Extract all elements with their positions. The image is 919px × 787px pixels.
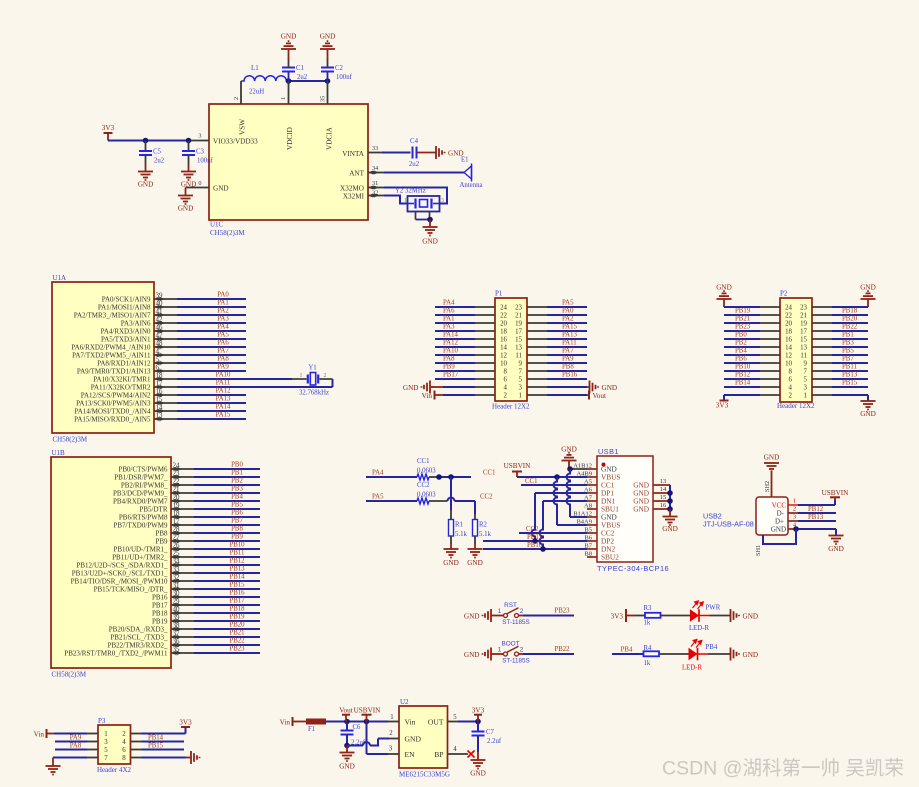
svg-text:GND: GND xyxy=(443,559,459,567)
svg-text:CC2: CC2 xyxy=(417,482,430,489)
svg-text:4: 4 xyxy=(156,348,160,356)
svg-text:4: 4 xyxy=(789,384,793,391)
svg-text:PB13: PB13 xyxy=(842,372,858,379)
svg-text:SBU2: SBU2 xyxy=(601,553,619,562)
svg-text:34: 34 xyxy=(372,165,379,172)
svg-text:2: 2 xyxy=(233,97,240,100)
svg-text:PB14: PB14 xyxy=(735,380,751,387)
resistor R3 1k xyxy=(645,613,661,618)
svg-text:35: 35 xyxy=(320,96,327,102)
resistor R2 5.1k xyxy=(473,520,478,537)
svg-text:PA15: PA15 xyxy=(562,324,577,331)
svg-text:3: 3 xyxy=(441,198,444,204)
wire C6 bottom xyxy=(346,735,348,746)
svg-text:Vout: Vout xyxy=(339,707,352,715)
svg-text:PA2/TMR3_/MISO1/AIN7: PA2/TMR3_/MISO1/AIN7 xyxy=(74,311,151,319)
svg-text:PA10/X32KI/TMR1: PA10/X32KI/TMR1 xyxy=(93,375,151,383)
svg-text:R4: R4 xyxy=(644,645,653,652)
svg-text:PB10: PB10 xyxy=(229,542,245,549)
svg-text:GND: GND xyxy=(464,613,480,621)
svg-text:23: 23 xyxy=(515,304,522,311)
svg-text:2: 2 xyxy=(789,392,793,399)
wire D- net PB12 xyxy=(798,512,836,514)
svg-text:PB22: PB22 xyxy=(229,638,245,645)
wire DP1 down to PB11 with hop xyxy=(535,492,587,494)
svg-text:PB11: PB11 xyxy=(842,364,857,371)
svg-text:4: 4 xyxy=(504,384,508,391)
LED PWR LED-R xyxy=(690,609,699,622)
svg-text:C3: C3 xyxy=(196,149,205,156)
svg-text:C6: C6 xyxy=(353,724,362,731)
svg-text:18: 18 xyxy=(500,328,507,335)
svg-text:PB18: PB18 xyxy=(229,606,245,613)
wire USBVIN down to EN xyxy=(366,722,368,755)
svg-text:21: 21 xyxy=(173,486,181,494)
svg-text:PA0/SCK1/AIN9: PA0/SCK1/AIN9 xyxy=(102,295,151,303)
svg-text:OUT: OUT xyxy=(428,718,444,727)
svg-text:PB18: PB18 xyxy=(152,609,168,617)
svg-text:29: 29 xyxy=(173,598,181,606)
svg-text:PB17: PB17 xyxy=(443,372,459,379)
pin B4A9 VBUS of USB1 xyxy=(587,524,597,526)
wire RST to net PB23 xyxy=(523,615,574,617)
svg-text:3: 3 xyxy=(793,514,796,521)
svg-text:PB9: PB9 xyxy=(443,364,455,371)
node junction A1B12 xyxy=(567,466,573,472)
wire C5 bottom lead xyxy=(145,155,147,164)
svg-text:18: 18 xyxy=(156,372,164,380)
wire P3 pin8 to GND xyxy=(131,757,142,759)
svg-text:PB11/UD+/TMR2_: PB11/UD+/TMR2_ xyxy=(112,553,168,561)
svg-text:8: 8 xyxy=(504,368,508,375)
wire R1 bottom lead xyxy=(450,536,452,544)
node junction USBVIN xyxy=(364,719,370,725)
svg-text:10: 10 xyxy=(500,360,507,367)
svg-text:GND: GND xyxy=(405,735,422,744)
wire C4 to ground xyxy=(417,152,437,154)
svg-text:PB1/DSR/PWM7_: PB1/DSR/PWM7_ xyxy=(114,473,168,481)
svg-text:PB1: PB1 xyxy=(842,332,854,339)
chip U1B CH58(2)3M xyxy=(51,457,171,668)
pin 13 GND of USB1 xyxy=(653,484,670,486)
wire P2 pin1 to GND xyxy=(812,394,832,396)
svg-text:PB13/U2D+/SCK0_/SCL/TXD1_: PB13/U2D+/SCK0_/SCL/TXD1_ xyxy=(72,569,168,577)
connector P1 Header 12X2 xyxy=(495,298,527,401)
svg-text:PB20: PB20 xyxy=(842,316,858,323)
svg-text:F1: F1 xyxy=(308,726,315,733)
svg-text:PA5: PA5 xyxy=(562,300,574,307)
antenna E1 xyxy=(464,164,472,182)
svg-text:PB23: PB23 xyxy=(554,608,570,615)
svg-text:USBVIN: USBVIN xyxy=(822,489,850,497)
svg-text:5: 5 xyxy=(104,747,108,754)
pin SH2 shield stem xyxy=(771,471,773,498)
svg-text:4: 4 xyxy=(453,746,457,753)
svg-text:46: 46 xyxy=(156,324,164,332)
node junction crystal gnd xyxy=(427,217,433,223)
svg-text:1: 1 xyxy=(390,714,393,721)
svg-text:17: 17 xyxy=(156,380,164,388)
svg-text:9: 9 xyxy=(804,360,808,367)
svg-text:8: 8 xyxy=(789,368,793,375)
svg-text:PB15: PB15 xyxy=(148,742,164,749)
wire P1 left net PA12 xyxy=(435,346,475,348)
svg-text:PA3: PA3 xyxy=(217,316,229,323)
crystal Y2 32MHz xyxy=(408,196,440,212)
svg-text:PB9: PB9 xyxy=(155,537,168,545)
wire R2 top lead xyxy=(474,514,476,520)
svg-text:PA13: PA13 xyxy=(562,332,577,339)
wire X32MI to crystal left xyxy=(384,196,408,204)
svg-text:GND: GND xyxy=(213,185,229,193)
capacitor C7 xyxy=(477,722,479,732)
svg-text:GND: GND xyxy=(602,384,618,392)
svg-text:1k: 1k xyxy=(644,620,651,627)
svg-text:CC1: CC1 xyxy=(483,470,495,477)
svg-text:41: 41 xyxy=(156,308,164,316)
svg-text:39: 39 xyxy=(173,614,181,622)
svg-text:32.768kHz: 32.768kHz xyxy=(299,390,329,397)
wire BOOT to net PB22 xyxy=(523,653,574,655)
svg-text:15: 15 xyxy=(660,494,666,501)
svg-text:Y1: Y1 xyxy=(308,365,316,372)
wire VCC to USBVIN xyxy=(798,504,835,506)
ground GND below C3 xyxy=(181,172,196,181)
svg-text:BOOT: BOOT xyxy=(501,640,519,647)
svg-text:33: 33 xyxy=(372,145,378,152)
svg-text:PA7: PA7 xyxy=(562,348,574,355)
svg-text:13: 13 xyxy=(515,344,522,351)
svg-text:R3: R3 xyxy=(644,605,653,612)
svg-text:2: 2 xyxy=(122,731,126,738)
pin A6 DP1 of USB1 xyxy=(587,492,597,494)
node junction C5 xyxy=(143,138,149,144)
wire net CC1 to A5 xyxy=(521,484,587,486)
svg-text:2: 2 xyxy=(389,730,393,737)
svg-text:GND: GND xyxy=(561,446,577,454)
wire P1 pin3 to GND xyxy=(527,386,547,388)
svg-text:PB0/CTS/PWM6: PB0/CTS/PWM6 xyxy=(118,465,168,473)
wire P2 left net PB0 xyxy=(724,338,760,340)
wire X32MO to crystal right xyxy=(384,188,447,204)
svg-text:3: 3 xyxy=(198,133,201,140)
svg-text:U1B: U1B xyxy=(52,449,66,457)
svg-text:PB13: PB13 xyxy=(808,514,824,521)
svg-text:1: 1 xyxy=(804,392,808,399)
svg-text:PB0: PB0 xyxy=(231,462,243,469)
svg-text:37: 37 xyxy=(173,630,181,638)
ground GND below C6 xyxy=(346,746,348,753)
svg-text:2: 2 xyxy=(504,392,508,399)
wire P2 left net PB4 xyxy=(724,354,760,356)
svg-text:26: 26 xyxy=(173,542,181,550)
svg-text:CSDN @湖科第一帅 吴凯荣: CSDN @湖科第一帅 吴凯荣 xyxy=(662,758,904,780)
svg-text:14: 14 xyxy=(500,344,507,351)
svg-text:31: 31 xyxy=(372,180,378,187)
svg-text:14: 14 xyxy=(156,404,164,412)
svg-text:PA14/MOSI/TXD0_/AIN4: PA14/MOSI/TXD0_/AIN4 xyxy=(75,407,151,415)
svg-text:PB12/U2D-/SCS_/SDA/RXD1_: PB12/U2D-/SCS_/SDA/RXD1_ xyxy=(76,561,168,569)
wire P2 pin2 to 3V3 xyxy=(724,394,760,396)
wire P2 right net PB11 xyxy=(812,370,832,372)
pin A5 CC1 of USB1 xyxy=(587,484,597,486)
svg-text:0: 0 xyxy=(198,180,201,187)
svg-text:PA14: PA14 xyxy=(216,404,231,411)
svg-text:22: 22 xyxy=(500,312,507,319)
svg-text:PA1/MOSI1/AIN8: PA1/MOSI1/AIN8 xyxy=(98,303,151,311)
svg-text:USB1: USB1 xyxy=(598,447,619,456)
svg-text:R2: R2 xyxy=(479,522,488,529)
svg-text:PA15/MISO/RXD0_/AIN5: PA15/MISO/RXD0_/AIN5 xyxy=(74,415,151,423)
svg-text:P1: P1 xyxy=(495,290,503,298)
ground GND above C1 xyxy=(288,49,290,59)
svg-text:PA12: PA12 xyxy=(216,388,231,395)
svg-text:USBVIN: USBVIN xyxy=(504,462,532,470)
svg-text:1: 1 xyxy=(519,392,523,399)
wire Vin to P3 pin1 xyxy=(47,733,55,735)
wire P2 left net PB19 xyxy=(724,314,760,316)
ground GND below R1 xyxy=(444,549,459,558)
svg-text:CC1: CC1 xyxy=(525,478,537,485)
svg-text:5: 5 xyxy=(804,376,808,383)
svg-text:3V3: 3V3 xyxy=(179,719,192,727)
svg-text:0,0603: 0,0603 xyxy=(417,491,436,498)
svg-text:CH58(2)3M: CH58(2)3M xyxy=(210,229,245,237)
svg-text:3: 3 xyxy=(519,384,523,391)
svg-text:2u2: 2u2 xyxy=(297,74,308,81)
pin A8 SBU1 of USB1 xyxy=(587,508,597,510)
svg-text:5: 5 xyxy=(453,714,457,721)
svg-text:PB7: PB7 xyxy=(842,356,854,363)
svg-text:GND: GND xyxy=(422,238,438,246)
svg-text:U1C: U1C xyxy=(210,220,224,228)
svg-text:PA4: PA4 xyxy=(443,300,455,307)
svg-text:PA8/RXD1/AIN12: PA8/RXD1/AIN12 xyxy=(97,359,151,367)
svg-text:GND: GND xyxy=(281,33,297,41)
wire CC1 resistor to junctions xyxy=(429,476,439,478)
svg-text:Vin: Vin xyxy=(422,392,433,400)
wire P2 pin24 to GND xyxy=(724,306,760,308)
regulator U2 ME6215C33M5G xyxy=(399,706,448,768)
svg-text:11: 11 xyxy=(515,352,522,359)
svg-text:PB5: PB5 xyxy=(231,502,243,509)
svg-text:Header 12X2: Header 12X2 xyxy=(777,402,815,410)
pin B6 DP2 of USB1 xyxy=(587,540,597,542)
power Vin left of P3 xyxy=(46,729,48,738)
node junction VBUS xyxy=(554,474,560,480)
wire L1 to C1 junction xyxy=(289,80,328,82)
svg-text:PA0: PA0 xyxy=(562,308,574,315)
svg-text:PB17: PB17 xyxy=(229,598,245,605)
svg-text:PA12/SCS/PWM4/AIN2: PA12/SCS/PWM4/AIN2 xyxy=(81,391,151,399)
switch RST ST-1185S xyxy=(491,615,504,617)
wire GND pin2 to C6 xyxy=(389,738,399,740)
svg-text:9: 9 xyxy=(519,360,523,367)
wire P1 left net PB9 xyxy=(435,370,475,372)
svg-text:13: 13 xyxy=(156,412,164,420)
svg-text:Vin: Vin xyxy=(405,718,416,727)
svg-text:3: 3 xyxy=(389,746,393,753)
pin B5 CC2 of USB1 xyxy=(587,532,597,534)
node junction GND14 xyxy=(667,490,673,496)
svg-text:PB23/RST/TMR0_/TXD2_/PWM11: PB23/RST/TMR0_/TXD2_/PWM11 xyxy=(64,649,168,657)
svg-text:PA15: PA15 xyxy=(216,412,231,419)
wire P3 pin7 to GND xyxy=(53,757,87,759)
svg-text:2: 2 xyxy=(324,373,327,379)
svg-text:C5: C5 xyxy=(153,149,162,156)
wire crystal bottom pins to ground xyxy=(415,212,417,220)
svg-text:GND: GND xyxy=(464,651,480,659)
svg-text:2: 2 xyxy=(520,608,524,615)
LED PB4 LED-R xyxy=(689,648,698,661)
capacitor C5 xyxy=(145,141,147,152)
node junction C1 xyxy=(286,78,292,84)
wire net PB10 to B7 xyxy=(483,548,587,550)
svg-text:8: 8 xyxy=(122,755,126,762)
svg-text:PA10: PA10 xyxy=(216,372,231,379)
ground GND above C2 xyxy=(327,49,329,59)
power 3V3 rail xyxy=(104,132,113,134)
svg-text:X32MO: X32MO xyxy=(340,185,364,193)
power 3V3 at R3 xyxy=(625,609,627,622)
wire P1 left net PA14 xyxy=(435,338,475,340)
wire P1 right net PA13 xyxy=(527,338,547,340)
wire P1 left net PA6 xyxy=(435,314,475,316)
svg-text:PA8: PA8 xyxy=(70,742,82,749)
svg-text:PB5/DTR: PB5/DTR xyxy=(139,505,167,513)
svg-text:1: 1 xyxy=(104,731,108,738)
wire P2 left net PB23 xyxy=(724,330,760,332)
svg-text:GND: GND xyxy=(860,284,876,292)
ground GND below C5 xyxy=(138,172,153,181)
svg-text:PB14/TIO/DSR_/MOSI_/PWM10: PB14/TIO/DSR_/MOSI_/PWM10 xyxy=(71,577,168,585)
svg-text:1: 1 xyxy=(498,646,502,653)
svg-text:2.2uf: 2.2uf xyxy=(487,738,502,745)
svg-text:Vout: Vout xyxy=(593,392,606,400)
chip U1C CH58(2)3M xyxy=(209,104,368,220)
svg-text:PA13: PA13 xyxy=(216,396,231,403)
resistor R4 1k xyxy=(644,651,660,656)
svg-text:PB19: PB19 xyxy=(735,308,751,315)
svg-text:34: 34 xyxy=(173,558,181,566)
svg-text:CC2: CC2 xyxy=(480,494,493,501)
svg-text:PB4: PB4 xyxy=(621,647,633,654)
svg-text:PB22: PB22 xyxy=(554,646,570,653)
svg-text:GND: GND xyxy=(403,384,419,392)
wire GND to A1B12 xyxy=(569,468,587,470)
svg-text:5.1k: 5.1k xyxy=(479,531,491,538)
svg-text:GND: GND xyxy=(743,651,759,659)
svg-text:100nf: 100nf xyxy=(197,158,214,165)
svg-text:PA11: PA11 xyxy=(216,380,231,387)
ground GND left of RST switch xyxy=(483,609,492,622)
svg-text:11: 11 xyxy=(800,352,807,359)
svg-text:PB1: PB1 xyxy=(231,470,243,477)
svg-text:VCC: VCC xyxy=(772,502,787,510)
svg-text:PB14: PB14 xyxy=(229,574,245,581)
svg-text:PA9: PA9 xyxy=(70,734,82,741)
svg-text:18: 18 xyxy=(785,328,792,335)
resistor CC1 0,0603 xyxy=(417,474,429,480)
svg-text:PB20: PB20 xyxy=(229,622,245,629)
wire OUT to 3V3 xyxy=(448,721,459,723)
svg-text:U2: U2 xyxy=(400,698,409,706)
pin B8 SBU2 of USB1 xyxy=(587,556,597,558)
svg-text:USBVIN: USBVIN xyxy=(354,707,382,715)
svg-text:PB6: PB6 xyxy=(231,510,243,517)
wire C3 bottom lead xyxy=(188,155,190,164)
resistor R1 5.1k xyxy=(449,520,454,537)
wire VBUS bus down to B4A9 with hops xyxy=(554,477,557,525)
svg-text:20: 20 xyxy=(173,494,181,502)
svg-text:BP: BP xyxy=(434,750,443,759)
svg-text:D+: D+ xyxy=(775,518,784,526)
svg-text:21: 21 xyxy=(800,312,807,319)
wire R2 bottom lead xyxy=(474,536,476,544)
wire P1 pin1 to Vout xyxy=(527,394,547,396)
svg-text:1: 1 xyxy=(793,498,796,505)
svg-text:16: 16 xyxy=(500,336,507,343)
ground GND left of BOOT switch xyxy=(483,648,492,661)
svg-text:U1A: U1A xyxy=(53,274,67,282)
svg-text:PB4: PB4 xyxy=(735,348,747,355)
connector P3 Header 4X2 xyxy=(98,725,131,764)
svg-text:PA5: PA5 xyxy=(372,494,384,501)
svg-text:PB14: PB14 xyxy=(148,734,164,741)
svg-text:PB10: PB10 xyxy=(735,364,751,371)
wire P1 right net PA2 xyxy=(527,322,547,324)
svg-text:7: 7 xyxy=(519,368,523,375)
connector P2 Header 12X2 xyxy=(780,298,812,402)
svg-text:PB3: PB3 xyxy=(842,340,854,347)
svg-text:PB23: PB23 xyxy=(229,646,245,653)
power Vout right of P1 xyxy=(588,391,590,400)
svg-text:TYPEC-304-BCP16: TYPEC-304-BCP16 xyxy=(597,564,669,573)
svg-text:27: 27 xyxy=(173,534,181,542)
svg-text:PA10: PA10 xyxy=(443,348,458,355)
svg-text:22: 22 xyxy=(785,312,792,319)
ground GND right of C4 xyxy=(436,146,445,159)
wire VINTA to C4 xyxy=(382,152,411,154)
svg-text:16: 16 xyxy=(156,388,164,396)
svg-text:PB7: PB7 xyxy=(231,518,243,525)
net label PA4 wire xyxy=(366,476,417,478)
svg-text:PA4: PA4 xyxy=(217,324,229,331)
power Vin at U2 xyxy=(292,717,294,726)
ground GND below R2 xyxy=(468,549,483,558)
svg-text:19: 19 xyxy=(173,502,181,510)
wire 3V3 to R3 xyxy=(626,615,635,617)
ground GND below P3 left xyxy=(46,766,61,775)
svg-text:40: 40 xyxy=(173,606,181,614)
ground GND bottom-right of P2 xyxy=(861,401,876,410)
wire P2 right net PB13 xyxy=(812,378,832,380)
svg-text:40: 40 xyxy=(156,300,164,308)
svg-text:18: 18 xyxy=(173,510,181,518)
svg-text:12: 12 xyxy=(785,352,792,359)
svg-text:PB5: PB5 xyxy=(842,348,854,355)
svg-text:RST: RST xyxy=(504,602,517,609)
wire P2 right net PB3 xyxy=(812,346,832,348)
svg-text:B8: B8 xyxy=(584,550,592,557)
node junction GND15 xyxy=(667,498,673,504)
svg-text:PB16: PB16 xyxy=(152,593,168,601)
svg-text:CH58(2)3M: CH58(2)3M xyxy=(52,671,87,679)
svg-text:42: 42 xyxy=(156,316,164,324)
svg-text:Header 4X2: Header 4X2 xyxy=(97,766,132,774)
wire D+ net PB13 xyxy=(798,520,836,522)
svg-text:PB17: PB17 xyxy=(152,601,168,609)
